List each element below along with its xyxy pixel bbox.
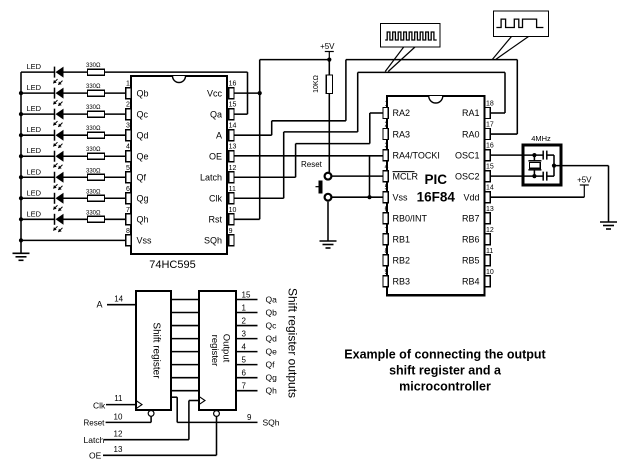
svg-text:3: 3 <box>126 123 130 130</box>
resistor R6 value 330&#937; <box>86 168 101 174</box>
wire: Latch input (pin 12) <box>84 396 206 445</box>
wire: 74HC595 Qa over the top to LED row 1 <box>234 72 247 114</box>
svg-text:register: register <box>209 335 220 367</box>
svg-text:Qb: Qb <box>137 88 149 98</box>
PIC pin 5 Vss <box>383 185 408 203</box>
wire: Clk input (pin 11) <box>93 394 142 411</box>
LED D2 label <box>27 83 42 92</box>
74HC595 pin 15 Qa <box>210 102 237 120</box>
svg-text:RA4/TOCKI: RA4/TOCKI <box>393 150 440 160</box>
wire: button bottom to ground <box>327 202 329 241</box>
wire: output Qg pin 6 <box>236 369 277 383</box>
wire: +5V rail to 74HC595 Vcc and Rst <box>234 58 331 220</box>
svg-text:+5V: +5V <box>577 176 592 185</box>
LED D1 label <box>27 62 42 71</box>
svg-text:330Ω: 330Ω <box>86 105 101 111</box>
svg-text:RB4: RB4 <box>462 277 480 287</box>
svg-text:RA2: RA2 <box>393 108 411 118</box>
svg-text:Qb: Qb <box>266 308 278 318</box>
svg-text:330Ω: 330Ω <box>86 126 101 132</box>
svg-text:RB6: RB6 <box>462 235 480 245</box>
wire: internal bus line 2 <box>171 312 199 314</box>
LED D5 <box>53 151 63 169</box>
svg-text:Reset: Reset <box>84 419 106 428</box>
LED D6 <box>53 172 63 190</box>
svg-text:16: 16 <box>486 143 494 150</box>
LED D4 label <box>27 125 42 134</box>
ground (left rail) <box>13 253 30 260</box>
wire: LED row 1 <box>21 71 248 73</box>
svg-text:Clk: Clk <box>209 193 222 203</box>
74HC595 reference label <box>149 259 195 271</box>
svg-text:RB7: RB7 <box>462 213 480 223</box>
LED D3 label <box>27 104 42 113</box>
wire: left ground rail <box>20 72 22 253</box>
svg-text:9: 9 <box>229 228 233 235</box>
wire: caps common to ground <box>552 155 609 222</box>
svg-text:8: 8 <box>385 248 389 255</box>
crystal X1 <box>528 155 541 176</box>
74HC595 pin 16 Vcc <box>207 81 237 99</box>
svg-text:Clk: Clk <box>93 400 106 410</box>
wire: output Qc pin 2 <box>236 317 277 331</box>
resistor R2 value 330&#937; <box>86 84 101 90</box>
wire: +5V to PIC Vdd <box>490 196 584 198</box>
wire: branch to PIC RA0 (clock waveform wire) <box>284 72 505 131</box>
svg-text:1: 1 <box>242 304 247 313</box>
svg-text:RB5: RB5 <box>462 256 480 266</box>
svg-text:2: 2 <box>242 317 247 326</box>
caption text <box>344 348 546 394</box>
svg-text:LED: LED <box>27 146 42 155</box>
wire: output Qb pin 1 <box>236 304 277 318</box>
svg-text:RB3: RB3 <box>393 277 411 287</box>
svg-text:1: 1 <box>385 101 389 108</box>
svg-text:Qh: Qh <box>137 215 149 225</box>
PIC pin 11 RB5 <box>462 248 493 266</box>
wire: 74HC595 Clk riser to RA0 channel <box>234 132 283 198</box>
svg-text:15: 15 <box>229 102 237 109</box>
wire: SQh serial output (pin 9) <box>171 397 280 428</box>
svg-text:Latch: Latch <box>200 172 222 182</box>
wire: internal bus line 1 <box>171 299 199 301</box>
svg-text:18: 18 <box>486 101 494 108</box>
node: +5V supply (right) <box>577 176 592 198</box>
wire: output Qa pin 15 <box>236 291 277 305</box>
LED D7 label <box>27 188 42 197</box>
svg-text:9: 9 <box>385 269 389 276</box>
svg-text:17: 17 <box>486 122 494 129</box>
block: output register (internal diagram) <box>199 291 236 410</box>
svg-text:330Ω: 330Ω <box>86 210 101 216</box>
PIC pin 15 OSC2 <box>455 164 494 182</box>
wire: output Qf pin 5 <box>236 356 275 370</box>
resistor R2 <box>88 90 105 96</box>
wire: internal bus line 4 <box>171 338 199 340</box>
svg-text:RA1: RA1 <box>462 108 480 118</box>
svg-text:9: 9 <box>247 413 252 422</box>
wire: output Qe pin 4 <box>236 343 277 357</box>
svg-text:5: 5 <box>242 356 247 365</box>
svg-text:13: 13 <box>114 445 123 454</box>
wire: OSC2 to crystal <box>490 174 543 178</box>
svg-text:14: 14 <box>229 123 237 130</box>
svg-text:Qf: Qf <box>266 360 276 370</box>
wire: Reset input (pin 10) <box>84 411 155 428</box>
svg-text:Shift register outputs: Shift register outputs <box>286 288 300 398</box>
svg-text:microcontroller: microcontroller <box>399 380 491 394</box>
block: shift register (internal diagram) <box>136 291 171 410</box>
svg-text:Latch: Latch <box>84 435 105 445</box>
resistor R1 value 330&#937; <box>86 63 101 69</box>
74HC595 pin 7 Qh <box>126 207 149 225</box>
ground (crystal) <box>600 222 617 229</box>
wire: button bottom to PIC Vss with junction <box>332 195 384 199</box>
node: Reset label <box>301 160 323 169</box>
PIC pin 3 RA4/TOCKI <box>383 143 440 161</box>
svg-text:2: 2 <box>385 122 389 129</box>
svg-text:SQh: SQh <box>263 418 280 428</box>
74HC595 pin 11 Clk <box>209 186 236 204</box>
resistor R6 <box>88 174 105 180</box>
waveform callout: fast clock <box>381 24 441 72</box>
wire: OE input (pin 13) <box>89 411 219 461</box>
svg-text:LED: LED <box>27 83 42 92</box>
resistor R7 <box>88 195 105 201</box>
resistor R7 value 330&#937; <box>86 189 101 195</box>
PIC pin 7 RB1 <box>383 227 410 245</box>
PIC pin 9 RB3 <box>383 269 410 287</box>
svg-text:Shift register: Shift register <box>151 322 162 379</box>
svg-text:15: 15 <box>486 164 494 171</box>
svg-text:Vdd: Vdd <box>463 192 479 202</box>
svg-text:Qa: Qa <box>210 109 222 119</box>
svg-text:4MHz: 4MHz <box>531 134 551 143</box>
svg-text:14: 14 <box>114 295 123 304</box>
svg-text:OE: OE <box>89 451 102 461</box>
svg-text:RB0/INT: RB0/INT <box>393 213 428 223</box>
PIC pin 12 RB6 <box>462 227 494 245</box>
svg-text:Vss: Vss <box>393 192 409 202</box>
op-amp U1 74HC595 shift register IC body <box>131 76 227 254</box>
svg-text:330Ω: 330Ω <box>86 189 101 195</box>
wire: LED row 3 <box>19 112 126 116</box>
svg-text:Example of connecting the outp: Example of connecting the output <box>344 348 546 362</box>
svg-text:Rst: Rst <box>209 215 223 225</box>
74HC595 pin 3 Qd <box>126 123 149 141</box>
svg-text:3: 3 <box>385 143 389 150</box>
svg-text:+5V: +5V <box>320 42 335 51</box>
svg-text:4: 4 <box>126 144 130 151</box>
svg-text:LED: LED <box>27 62 42 71</box>
svg-text:PIC: PIC <box>425 172 448 187</box>
svg-text:Reset: Reset <box>301 160 323 169</box>
crystal X1 4MHz label <box>531 134 551 143</box>
74HC595 pin 8 Vss <box>126 228 152 246</box>
svg-text:10KΩ: 10KΩ <box>313 75 320 93</box>
svg-text:4: 4 <box>242 343 247 352</box>
LED D4 <box>53 130 63 148</box>
svg-text:6: 6 <box>385 206 389 213</box>
74HC595 pin 12 Latch <box>200 165 237 183</box>
svg-text:A: A <box>216 130 222 140</box>
74HC595 pin 5 Qf <box>126 165 147 183</box>
PIC pin 8 RB2 <box>383 248 410 266</box>
wire: LED row 6 <box>19 175 126 179</box>
wire: 74HC595 Latch to PIC RA2 <box>234 113 383 177</box>
resistor R5 <box>88 153 105 159</box>
74HC595 pin 2 Qc <box>126 102 149 120</box>
resistor R9 10K pull-up <box>326 60 332 173</box>
wire: OSC1 to crystal <box>490 153 543 157</box>
wire: button top to PIC MCLR <box>332 175 384 177</box>
resistor R4 value 330&#937; <box>86 126 101 132</box>
svg-text:5: 5 <box>126 165 130 172</box>
node: +5V supply (top) <box>320 42 335 60</box>
svg-text:Vss: Vss <box>137 236 153 246</box>
PIC pin 4 MCLR <box>383 164 419 182</box>
74HC595 pin 13 OE <box>209 144 237 162</box>
LED D8 label <box>27 209 42 218</box>
svg-text:330Ω: 330Ω <box>86 84 101 90</box>
wire: output Qd pin 3 <box>236 330 277 344</box>
svg-text:1: 1 <box>126 81 130 88</box>
svg-text:OSC1: OSC1 <box>455 150 480 160</box>
wire: internal bus line 8 <box>171 390 199 392</box>
svg-text:330Ω: 330Ω <box>86 63 101 69</box>
svg-text:A: A <box>97 300 103 310</box>
PIC pin 14 Vdd <box>463 185 493 203</box>
resistor R8 value 330&#937; <box>86 210 101 216</box>
crystal module box <box>523 145 561 185</box>
svg-text:Qh: Qh <box>266 386 278 396</box>
wire: LED row 7 <box>19 196 126 200</box>
svg-text:13: 13 <box>229 144 237 151</box>
svg-text:OSC2: OSC2 <box>455 171 480 181</box>
svg-text:Qf: Qf <box>137 172 147 182</box>
svg-text:LED: LED <box>27 104 42 113</box>
svg-text:7: 7 <box>126 207 130 214</box>
PIC pin 1 RA2 <box>383 101 410 119</box>
svg-text:RB2: RB2 <box>393 256 411 266</box>
svg-text:Vcc: Vcc <box>207 88 223 98</box>
svg-text:Qe: Qe <box>266 347 278 357</box>
svg-text:4: 4 <box>385 164 389 171</box>
LED D8 <box>53 214 63 232</box>
svg-text:LED: LED <box>27 188 42 197</box>
wire: output Qh pin 7 <box>236 382 277 396</box>
block label: Shift register <box>151 322 162 379</box>
PIC pin 10 RB4 <box>462 269 494 287</box>
svg-text:14: 14 <box>486 185 494 192</box>
PIC pin 18 RA1 <box>462 101 494 119</box>
svg-text:Output: Output <box>221 334 232 363</box>
PIC pin 17 RA0 <box>462 122 494 140</box>
block label: Output register <box>209 334 232 367</box>
capacitor C2 <box>543 172 554 181</box>
svg-text:Qg: Qg <box>266 373 278 383</box>
resistor R8 <box>88 216 105 222</box>
pushbutton S1 (reset) <box>316 173 332 201</box>
74HC595 pin 4 Qe <box>126 144 149 162</box>
resistor R9 value 10K&#937; <box>313 75 320 93</box>
svg-text:Qg: Qg <box>137 193 149 203</box>
PIC pin 13 RB7 <box>462 206 494 224</box>
svg-text:10: 10 <box>114 412 123 421</box>
svg-text:12: 12 <box>229 165 237 172</box>
wire: LED row 2 <box>19 91 126 95</box>
svg-text:RA3: RA3 <box>393 129 411 139</box>
svg-text:Qc: Qc <box>137 109 149 119</box>
svg-text:16: 16 <box>229 81 237 88</box>
svg-text:6: 6 <box>126 186 130 193</box>
svg-text:10: 10 <box>486 269 494 276</box>
resistor R3 <box>88 111 105 117</box>
svg-text:330Ω: 330Ω <box>86 147 101 153</box>
svg-text:11: 11 <box>114 394 123 403</box>
PIC pin 2 RA3 <box>383 122 410 140</box>
svg-text:Qd: Qd <box>137 130 149 140</box>
LED D2 <box>53 88 63 106</box>
svg-text:11: 11 <box>229 186 236 193</box>
svg-text:Qa: Qa <box>266 295 278 305</box>
74HC595 pin 6 Qg <box>126 186 149 204</box>
resistor R1 <box>88 69 105 75</box>
wire: LED row 4 <box>19 133 126 137</box>
LED D3 <box>53 109 63 127</box>
74HC595 pin 9 SQh <box>204 228 234 246</box>
wire: serial input A (pin 14) <box>97 295 137 310</box>
svg-text:LED: LED <box>27 125 42 134</box>
svg-text:16F84: 16F84 <box>417 190 456 205</box>
wire: internal bus line 6 <box>171 364 199 366</box>
svg-text:2: 2 <box>126 102 130 109</box>
LED D1 <box>53 67 63 85</box>
resistor R4 <box>88 132 105 138</box>
op-amp U2 PIC16F84 microcontroller body <box>387 96 485 295</box>
svg-text:SQh: SQh <box>204 236 222 246</box>
svg-text:12: 12 <box>114 430 123 439</box>
svg-text:7: 7 <box>242 382 247 391</box>
LED D7 <box>53 193 63 211</box>
wire: internal bus line 5 <box>171 351 199 353</box>
svg-text:74HC595: 74HC595 <box>149 259 195 271</box>
svg-text:10: 10 <box>229 207 237 214</box>
svg-text:3: 3 <box>242 330 247 339</box>
svg-text:Qe: Qe <box>137 151 149 161</box>
svg-text:13: 13 <box>486 206 494 213</box>
PIC16F84 name <box>417 172 456 205</box>
wire: internal bus line 3 <box>171 325 199 327</box>
svg-text:MCLR: MCLR <box>393 171 419 181</box>
LED D5 label <box>27 146 42 155</box>
svg-text:11: 11 <box>486 248 493 255</box>
svg-text:6: 6 <box>242 369 247 378</box>
wire: rail to 74HC595 Vss (pin 8) <box>19 238 126 242</box>
PIC pin 16 OSC1 <box>455 143 494 161</box>
capacitor C1 <box>543 151 554 160</box>
svg-text:shift register and a: shift register and a <box>389 364 502 378</box>
74HC595 pin 14 A <box>216 123 237 141</box>
svg-text:5: 5 <box>385 185 389 192</box>
wire: LED row 5 <box>19 154 126 158</box>
svg-text:LED: LED <box>27 209 42 218</box>
waveform callout: latch pulses <box>493 11 549 59</box>
svg-text:RA0: RA0 <box>462 129 480 139</box>
wire: 74HC595 A to PIC RA1 <box>234 60 517 136</box>
svg-text:Qd: Qd <box>266 334 278 344</box>
node: Shift register outputs caption <box>286 288 300 398</box>
svg-text:OE: OE <box>209 151 222 161</box>
svg-text:8: 8 <box>126 228 130 235</box>
ground (reset button) <box>320 241 337 248</box>
74HC595 pin 10 Rst <box>209 207 237 225</box>
resistor R3 value 330&#937; <box>86 105 101 111</box>
74HC595 pin 1 Qb <box>126 81 149 99</box>
wire: internal bus line 7 <box>171 377 199 379</box>
svg-text:LED: LED <box>27 167 42 176</box>
svg-text:RB1: RB1 <box>393 235 411 245</box>
svg-text:12: 12 <box>486 227 494 234</box>
PIC pin 6 RB0/INT <box>383 206 428 224</box>
svg-text:7: 7 <box>385 227 389 234</box>
wire: 74HC595 OE / PIC RA4-TOCKI ground row <box>234 156 383 197</box>
svg-text:15: 15 <box>242 291 251 300</box>
LED D6 label <box>27 167 42 176</box>
wire: LED row 8 <box>19 217 126 221</box>
resistor R5 value 330&#937; <box>86 147 101 153</box>
svg-text:Qc: Qc <box>266 321 278 331</box>
svg-text:330Ω: 330Ω <box>86 168 101 174</box>
